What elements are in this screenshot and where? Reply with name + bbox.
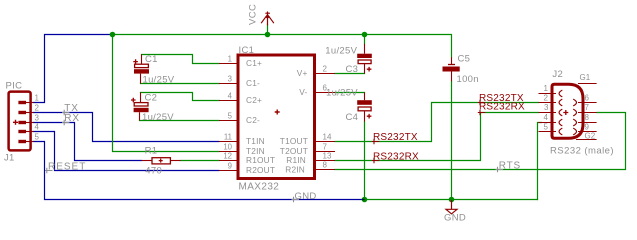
- svg-text:C1+: C1+: [246, 58, 262, 68]
- svg-text:5: 5: [544, 123, 549, 132]
- svg-text:G1: G1: [580, 73, 591, 82]
- svg-text:1u/25V: 1u/25V: [143, 75, 175, 86]
- svg-text:RS232RX: RS232RX: [479, 101, 525, 112]
- svg-text:14: 14: [323, 133, 332, 142]
- svg-text:GND: GND: [295, 191, 317, 202]
- svg-text:4: 4: [544, 113, 549, 122]
- svg-text:1: 1: [228, 55, 232, 64]
- svg-text:3: 3: [35, 114, 40, 123]
- svg-text:IC1: IC1: [239, 45, 255, 56]
- svg-text:5: 5: [35, 133, 40, 142]
- svg-text:GND: GND: [444, 213, 466, 224]
- svg-text:2: 2: [323, 65, 328, 74]
- svg-text:9: 9: [228, 162, 232, 171]
- svg-text:C1-: C1-: [246, 78, 260, 88]
- svg-text:RS232 (male): RS232 (male): [550, 146, 614, 157]
- svg-text:11: 11: [224, 133, 232, 142]
- svg-text:C4: C4: [346, 112, 359, 123]
- svg-text:6: 6: [585, 94, 590, 103]
- svg-text:RS232TX: RS232TX: [373, 132, 418, 143]
- svg-text:RESET: RESET: [48, 161, 86, 172]
- svg-text:C5: C5: [458, 54, 471, 65]
- svg-text:R2IN: R2IN: [285, 165, 305, 175]
- svg-text:V-: V-: [299, 87, 307, 97]
- svg-text:RS232RX: RS232RX: [373, 151, 419, 162]
- svg-text:3: 3: [228, 75, 232, 84]
- svg-text:R1OUT: R1OUT: [246, 155, 275, 165]
- svg-text:3: 3: [544, 103, 549, 112]
- svg-text:G2: G2: [585, 131, 596, 140]
- svg-text:C2: C2: [145, 92, 158, 103]
- svg-text:1u/25V: 1u/25V: [142, 112, 174, 123]
- svg-text:1: 1: [544, 84, 549, 93]
- svg-text:2: 2: [35, 104, 40, 113]
- svg-text:7: 7: [585, 103, 590, 112]
- svg-text:J2: J2: [552, 69, 563, 80]
- svg-text:100n: 100n: [457, 74, 479, 85]
- svg-text:R2OUT: R2OUT: [246, 165, 275, 175]
- svg-text:MAX232: MAX232: [239, 182, 280, 193]
- svg-text:4: 4: [228, 92, 233, 101]
- svg-text:8: 8: [323, 161, 328, 170]
- svg-text:2: 2: [544, 94, 549, 103]
- svg-text:VCC: VCC: [248, 4, 259, 25]
- svg-text:4: 4: [35, 123, 40, 132]
- svg-text:470: 470: [145, 165, 162, 176]
- svg-text:8: 8: [585, 113, 590, 122]
- svg-text:PIC: PIC: [6, 81, 23, 92]
- svg-text:9: 9: [585, 123, 590, 132]
- svg-text:10: 10: [223, 143, 232, 152]
- svg-text:V+: V+: [297, 68, 308, 78]
- svg-text:1u/25V: 1u/25V: [326, 88, 358, 99]
- svg-text:C1: C1: [145, 54, 158, 65]
- svg-text:5: 5: [228, 112, 233, 121]
- svg-text:J1: J1: [4, 153, 15, 164]
- svg-text:C2-: C2-: [246, 115, 260, 125]
- svg-text:R1: R1: [145, 145, 158, 156]
- svg-text:13: 13: [323, 152, 332, 161]
- svg-text:T1IN: T1IN: [246, 136, 265, 146]
- svg-text:T1OUT: T1OUT: [280, 136, 308, 146]
- svg-text:1: 1: [35, 94, 40, 103]
- svg-text:C3: C3: [346, 64, 359, 75]
- svg-text:12: 12: [223, 152, 232, 161]
- svg-text:7: 7: [323, 143, 328, 152]
- svg-text:C2+: C2+: [246, 95, 262, 105]
- svg-text:1u/25V: 1u/25V: [325, 45, 357, 56]
